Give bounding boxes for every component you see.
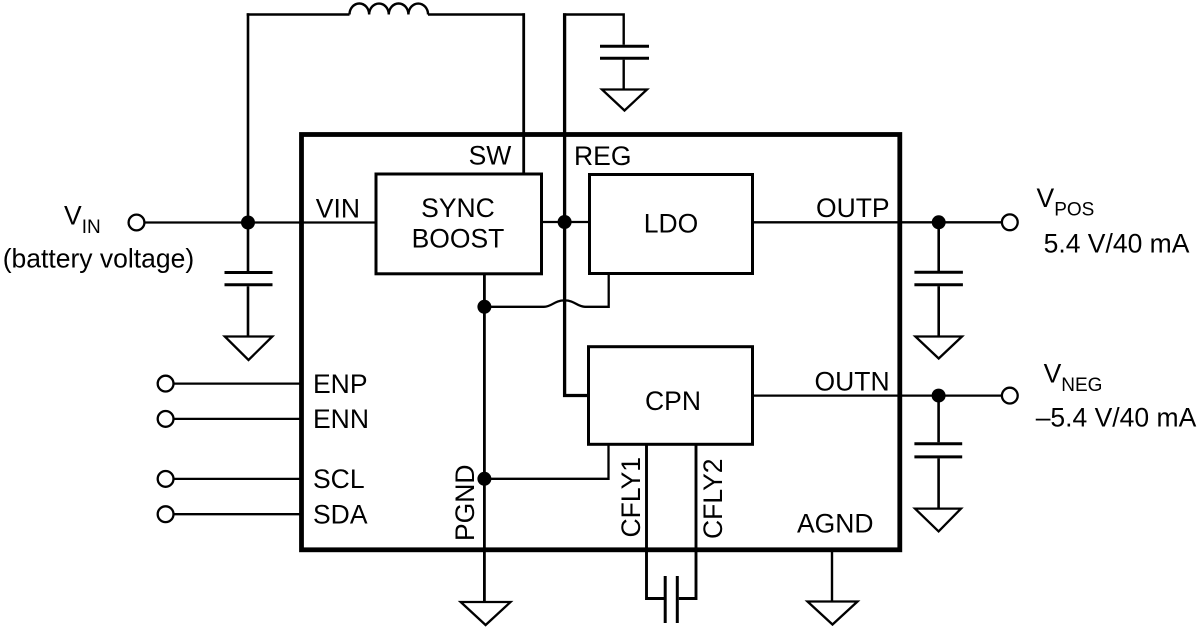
terminal SCL [158, 471, 174, 487]
label VIN (battery voltage) [3, 201, 194, 274]
svg-text:ENN: ENN [313, 404, 369, 434]
terminal ENP [158, 376, 174, 392]
wire SDA [174, 513, 302, 515]
svg-text:OUTP: OUTP [816, 193, 890, 223]
capacitor C-REG [600, 46, 649, 89]
wire REG net (vertical, to CPN) [565, 13, 589, 395]
svg-text:ENP: ENP [313, 369, 368, 399]
wire SYNC BOOST ground pin / PGND vertical [483, 274, 486, 602]
svg-text:SDA: SDA [313, 500, 368, 530]
capacitor C-OUTP [914, 272, 963, 336]
wire inductor to SW [428, 13, 525, 15]
junction OUTP node [932, 215, 946, 229]
svg-text:CPN: CPN [645, 386, 701, 416]
svg-text:OUTN: OUTN [815, 366, 890, 396]
junction REG node [558, 215, 572, 229]
capacitor C-FLY [665, 576, 677, 623]
wire VIN to inductor (vertical riser) [247, 13, 250, 222]
svg-text:REG: REG [574, 141, 631, 171]
svg-text:–5.4 V/40 mA: –5.4 V/40 mA [1036, 403, 1197, 433]
wire CFLY2 [679, 444, 696, 598]
svg-text:CFLY2: CFLY2 [698, 458, 728, 539]
svg-text:(battery voltage): (battery voltage) [3, 244, 194, 274]
svg-text:5.4 V/40 mA: 5.4 V/40 mA [1044, 228, 1190, 258]
svg-text:SW: SW [469, 141, 512, 171]
IC boundary U1 [302, 135, 900, 550]
svg-text:SYNC: SYNC [421, 193, 495, 223]
ground (input capacitor) [225, 337, 272, 361]
junction PGND node [477, 472, 491, 486]
wire OUTP node to output capacitor [937, 222, 940, 271]
wire REG top to capacitor [563, 15, 624, 45]
wire OUTN node to output capacitor [937, 396, 940, 443]
svg-text:LDO: LDO [644, 208, 699, 238]
ground (OUTP capacitor) [915, 337, 962, 359]
svg-text:CFLY1: CFLY1 [616, 457, 646, 538]
inductor L1 [350, 3, 429, 14]
svg-text:VIN: VIN [64, 201, 101, 239]
svg-text:SCL: SCL [313, 464, 365, 494]
svg-text:VNEG: VNEG [1044, 358, 1103, 396]
svg-text:VPOS: VPOS [1037, 183, 1095, 221]
wire VIN node to input capacitor [247, 223, 250, 272]
junction OUTN node [932, 389, 946, 403]
wire CFLY1 [647, 444, 665, 598]
block LDO [590, 175, 753, 274]
wire SW pin (vertical) [522, 13, 525, 174]
terminal ENN [158, 411, 174, 427]
capacitor C-OUTN [914, 444, 962, 509]
terminal VIN [129, 215, 145, 231]
wire OUTN [753, 394, 1003, 396]
svg-text:PGND: PGND [450, 464, 480, 541]
wire PGND to CPN [484, 444, 608, 479]
wire SCL [174, 478, 302, 480]
terminal SDA [158, 506, 174, 522]
block CPN [589, 347, 753, 445]
junction SYNC BOOST ground node [477, 300, 491, 314]
terminal VNEG [1002, 388, 1018, 404]
wire top run to inductor [247, 13, 350, 15]
wire SYNC BOOST output to LDO input [542, 221, 590, 223]
wire VIN input [145, 221, 377, 223]
block SYNC BOOST [376, 174, 542, 274]
svg-text:AGND: AGND [797, 509, 874, 539]
ground (REG capacitor) [602, 90, 647, 111]
wire ENN [174, 418, 302, 420]
svg-text:BOOST: BOOST [412, 224, 505, 254]
junction VIN node [241, 216, 255, 230]
wire hop to LDO ground pin [484, 274, 608, 307]
wire AGND pin [831, 550, 833, 602]
terminal VPOS [1002, 214, 1018, 230]
ground PGND [461, 602, 511, 625]
ground AGND [808, 602, 858, 625]
wire ENP [174, 382, 302, 384]
capacitor C-IN [225, 273, 273, 337]
ground (OUTN capacitor) [915, 509, 961, 532]
svg-text:VIN: VIN [316, 193, 360, 223]
wire OUTP [753, 221, 1003, 223]
